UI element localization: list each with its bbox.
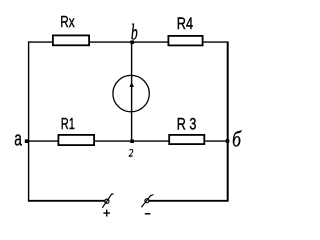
resistor R4 [168,36,202,46]
svg-text:a: a [14,129,22,151]
resistor R3 [169,135,204,144]
galvanometer arrowhead [129,82,134,87]
node v (top junction dot) [130,40,134,44]
wire center vertical (v to g through galvanometer) [131,42,133,141]
svg-text:R 3: R 3 [177,115,197,133]
terminal plus lever slash [102,194,112,208]
wire left vertical [28,42,30,202]
wire bottom left segment [28,200,105,202]
wire bottom right segment [149,200,229,202]
terminal minus (open circle) [145,199,149,203]
resistor Rx [53,35,89,45]
terminal minus lever tick [151,195,154,196]
terminal plus (open circle) [105,199,109,203]
galvanometer circle [113,75,149,111]
label minus sign [145,213,151,215]
svg-text:Rx: Rx [60,14,74,31]
svg-text:R4: R4 [177,15,193,33]
wire top horizontal (node a side to right corner) [28,41,229,43]
terminal plus lever tick [112,193,114,196]
node g (center junction dot) [130,139,134,143]
svg-text:2: 2 [129,147,134,159]
wire middle horizontal (a - R1 - g - R3 - b) [28,140,229,142]
label plus sign [103,212,110,214]
terminal minus lever slash [141,195,151,207]
node a (left junction dot) [25,139,29,143]
wire right vertical [227,42,229,202]
svg-text:б: б [232,127,242,152]
svg-text:R1: R1 [61,116,75,133]
resistor R1 [58,135,94,145]
svg-text:b: b [131,19,138,44]
node b (right junction dot) [226,139,230,143]
